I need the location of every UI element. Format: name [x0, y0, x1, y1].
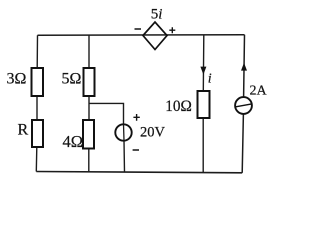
svg-text:i: i — [208, 71, 212, 86]
dependent source U1 diamond 5i — [143, 22, 167, 50]
wire second branch vertical — [88, 35, 90, 172]
wire through 20V source — [123, 125, 126, 141]
resistor R — [32, 120, 43, 147]
arrow down current i on 10ohm branch — [200, 67, 206, 75]
resistor 3ohm — [32, 68, 44, 96]
svg-text:4Ω: 4Ω — [63, 132, 84, 151]
wire right branch vertical — [242, 35, 244, 173]
arrow up on 2A branch — [241, 63, 247, 71]
plus sign above 20V — [133, 114, 139, 121]
minus sign left of diamond — [135, 28, 142, 30]
svg-text:R: R — [18, 122, 29, 139]
svg-text:5Ω: 5Ω — [62, 71, 82, 88]
minus sign below 20V — [133, 149, 139, 151]
svg-text:5i: 5i — [151, 7, 163, 23]
wire bottom rail — [36, 172, 242, 173]
chord inside 2A source — [236, 104, 252, 107]
resistor 5ohm — [84, 68, 95, 96]
voltage source 20V — [115, 124, 131, 140]
resistor 10ohm — [198, 91, 210, 118]
wire middle node to 20V source — [89, 103, 125, 172]
wire left branch vertical — [36, 35, 37, 171]
svg-text:2A: 2A — [250, 84, 268, 99]
plus sign right of diamond — [169, 27, 175, 33]
resistor 4ohm — [83, 120, 94, 149]
wire 10ohm branch vertical — [202, 35, 205, 173]
svg-text:10Ω: 10Ω — [165, 98, 192, 115]
current source 2A — [235, 97, 252, 114]
svg-text:20V: 20V — [140, 125, 166, 141]
svg-text:3Ω: 3Ω — [7, 71, 27, 88]
wire top rail — [38, 34, 245, 36]
